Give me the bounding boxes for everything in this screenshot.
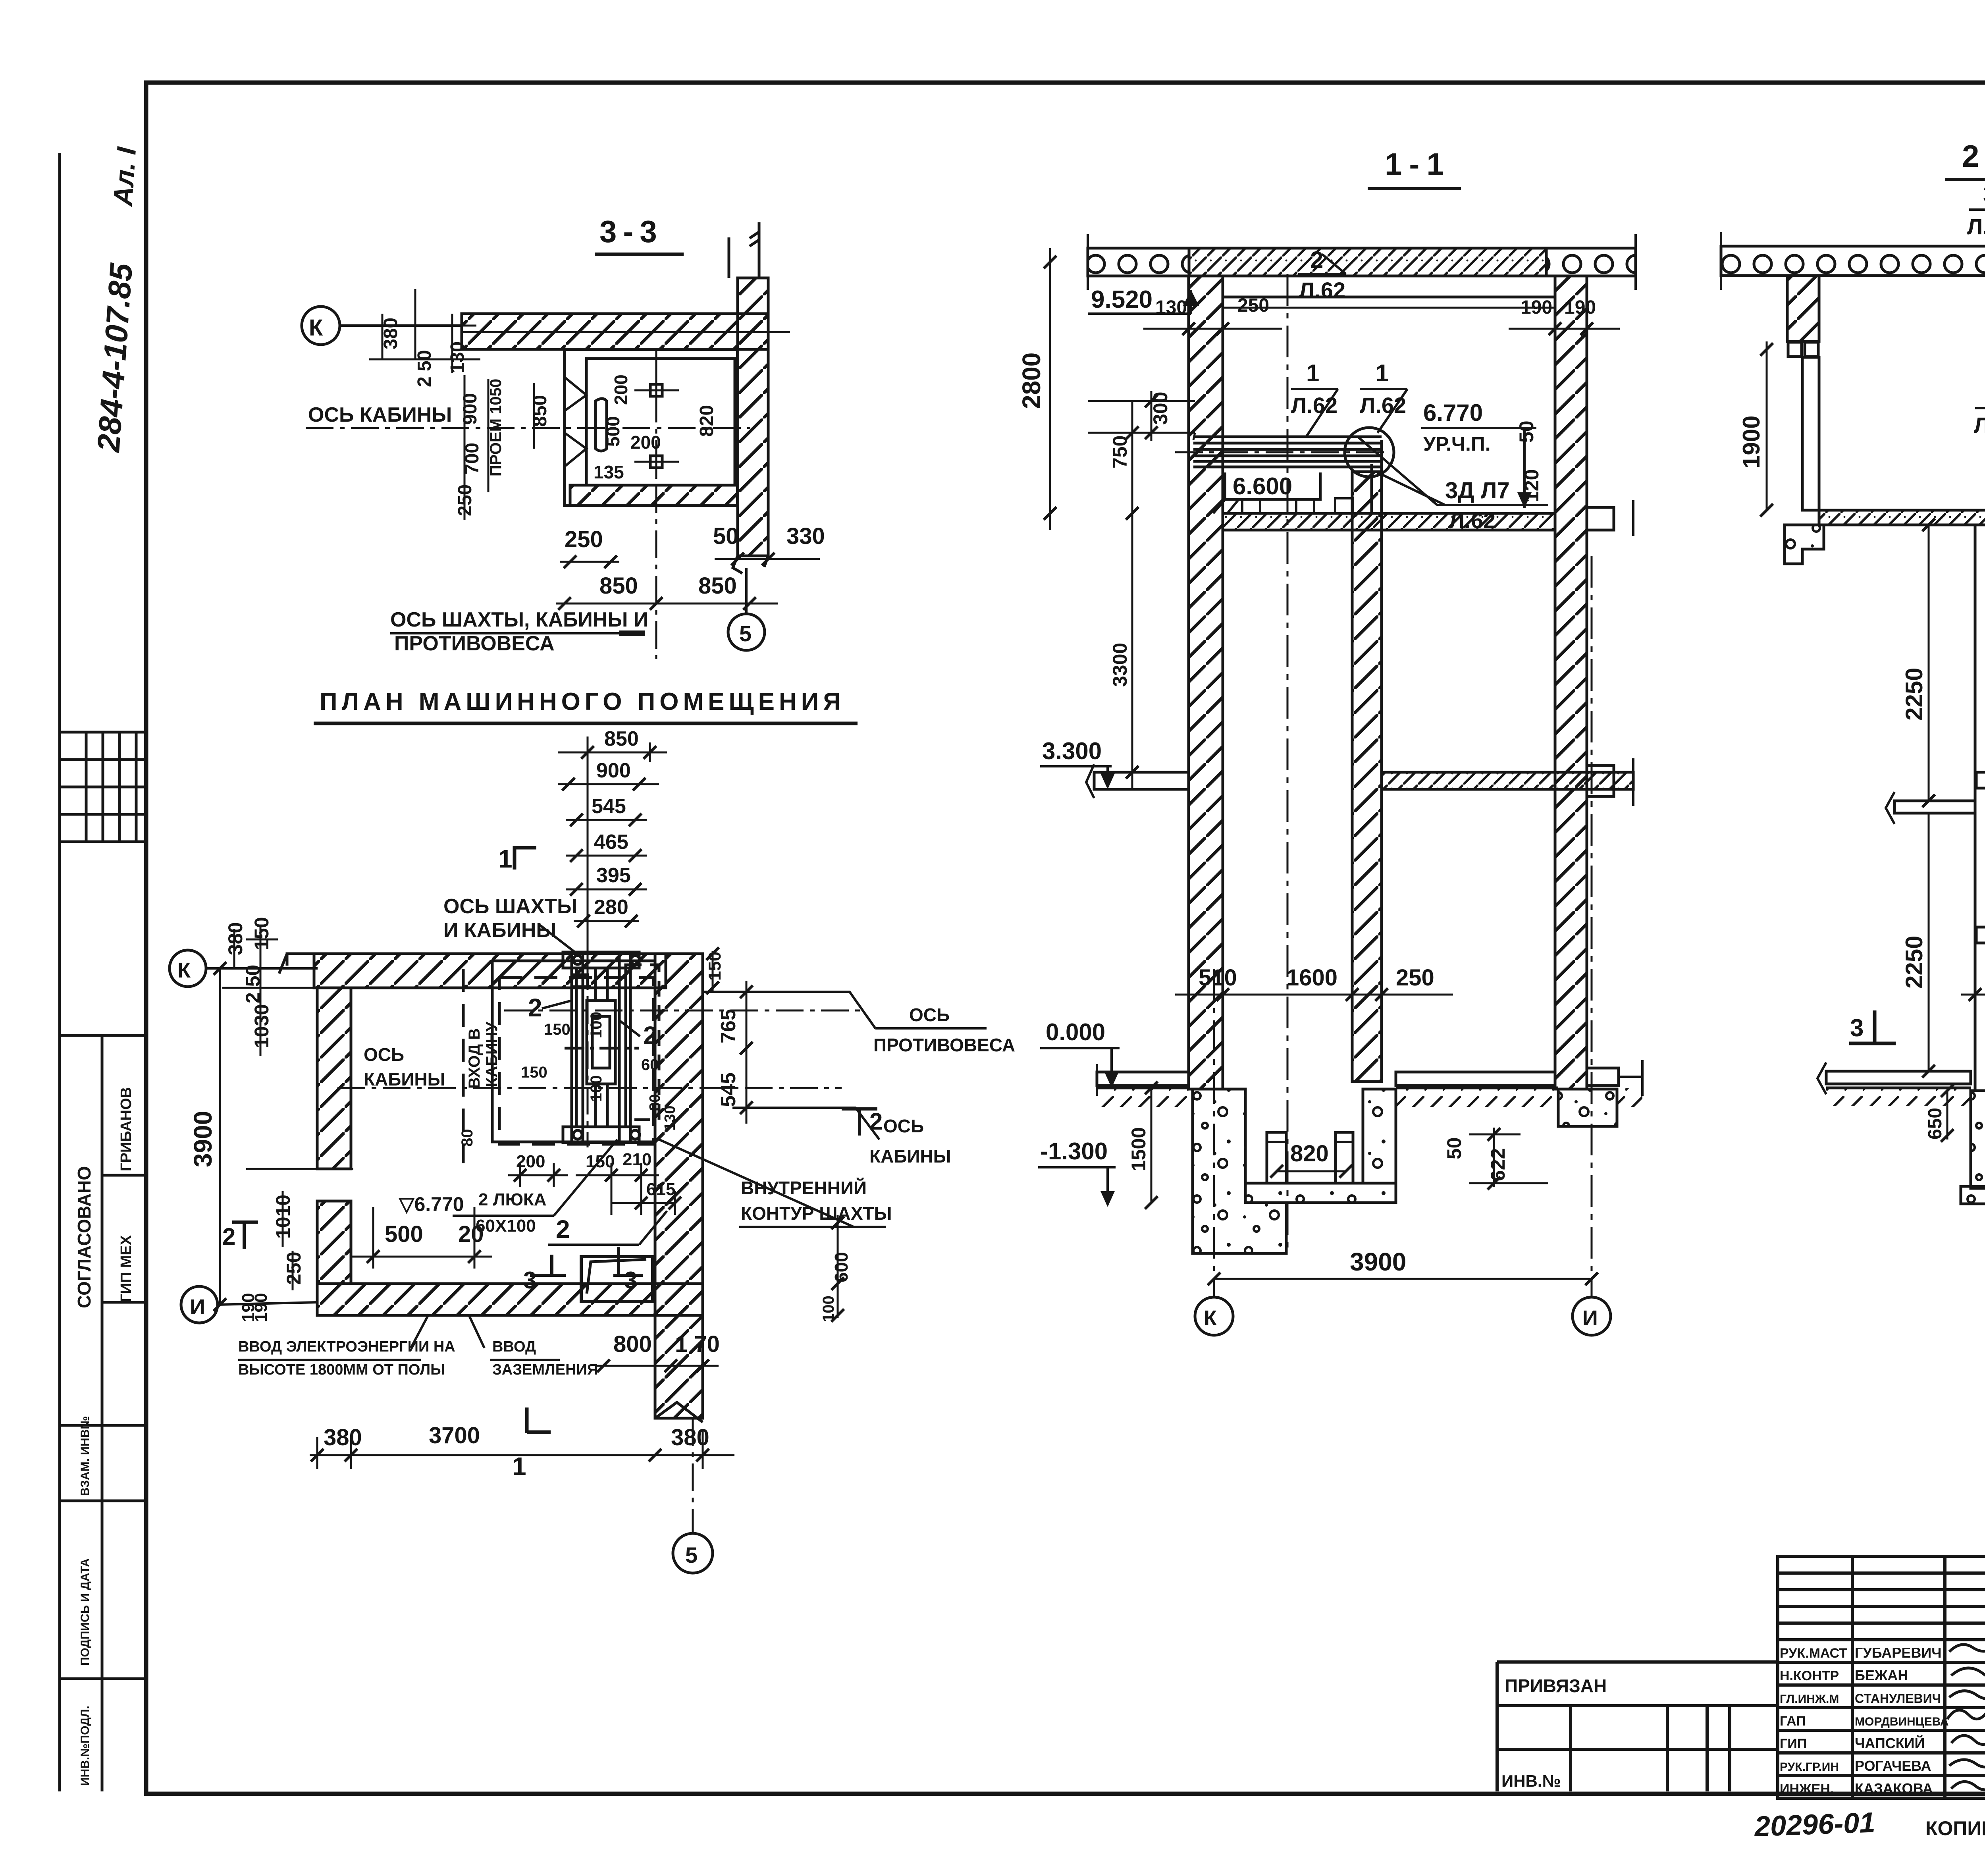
wall right band (738, 278, 768, 556)
left slab 3.300 (1094, 772, 1189, 789)
svg-text:20296-01: 20296-01 (1753, 1807, 1876, 1843)
left wall (1189, 276, 1223, 1089)
grid axis K (302, 307, 340, 345)
left wall upper (317, 988, 351, 1169)
svg-text:КАБИНЫ: КАБИНЫ (364, 1069, 445, 1089)
svg-text:1500: 1500 (1127, 1127, 1150, 1171)
svg-text:СТАНУЛЕВИЧ: СТАНУЛЕВИЧ (1855, 1691, 1941, 1706)
axis circle 5 (728, 614, 765, 650)
soil hatches (1097, 1088, 1189, 1107)
section 3 marks (530, 1255, 566, 1276)
svg-text:900: 900 (460, 393, 481, 425)
svg-text:Л.62: Л.62 (1449, 508, 1495, 533)
axis circle 5 below plan (692, 1418, 694, 1533)
dims 2250 x2 (1928, 525, 1930, 801)
sidebar outer line (58, 153, 61, 1791)
svg-text:150: 150 (521, 1064, 547, 1081)
svg-text:3Д Л7: 3Д Л7 (1445, 478, 1510, 503)
svg-text:И: И (1582, 1306, 1598, 1330)
svg-text:380: 380 (380, 318, 401, 349)
svg-text:615: 615 (646, 1180, 675, 1199)
right side vertical dims 600 400 (837, 1215, 839, 1318)
svg-text:ЧАПСКИЙ: ЧАПСКИЙ (1855, 1735, 1925, 1751)
shaft opening rect (565, 349, 738, 505)
svg-text:190: 190 (1564, 297, 1596, 318)
svg-text:МОРДВИНЦЕВА: МОРДВИНЦЕВА (1855, 1715, 1948, 1728)
svg-text:900: 900 (596, 759, 631, 782)
svg-text:850: 850 (698, 573, 737, 599)
svg-text:3900: 3900 (1350, 1247, 1406, 1276)
svg-text:622: 622 (1487, 1148, 1509, 1181)
left foundation (1193, 1089, 1286, 1253)
wall axis line (462, 331, 790, 333)
svg-text:1 70: 1 70 (675, 1331, 720, 1357)
level 6.600 (1225, 472, 1320, 499)
svg-text:ГРИБАНОВ: ГРИБАНОВ (118, 1087, 135, 1171)
svg-text:И: И (190, 1295, 205, 1319)
svg-text:КАЗАКОВА: КАЗАКОВА (1855, 1780, 1933, 1797)
shaft axis vertical dash (655, 349, 657, 659)
svg-text:КОНТУР ШАХТЫ: КОНТУР ШАХТЫ (741, 1203, 892, 1224)
svg-text:800: 800 (613, 1331, 652, 1357)
svg-text:6.600: 6.600 (1233, 473, 1292, 499)
svg-text:1-1: 1-1 (1385, 147, 1451, 181)
svg-text:ВХОД В: ВХОД В (466, 1028, 483, 1089)
svg-text:200: 200 (611, 374, 631, 405)
svg-text:2250: 2250 (1901, 668, 1927, 721)
svg-text:150: 150 (586, 1152, 615, 1171)
svg-text:850: 850 (530, 395, 551, 427)
svg-text:ОСЬ: ОСЬ (364, 1044, 404, 1065)
top wall left extension (279, 954, 314, 974)
svg-text:545: 545 (592, 795, 626, 818)
svg-text:250: 250 (1396, 965, 1434, 991)
shaft center line (1287, 274, 1289, 1255)
left dim chains (1049, 248, 1051, 530)
right pit wall (1363, 1089, 1396, 1183)
svg-text:-1.300: -1.300 (1040, 1138, 1108, 1165)
svg-text:150: 150 (544, 1021, 570, 1038)
left grid: I circle (181, 1286, 218, 1323)
svg-text:600: 600 (831, 1252, 852, 1282)
svg-text:3-3: 3-3 (599, 214, 663, 249)
sidebar top grid (60, 732, 146, 842)
svg-text:Ал. I: Ал. I (108, 145, 142, 208)
svg-text:ОСЬ: ОСЬ (883, 1116, 924, 1136)
section mark 2 left (232, 1221, 258, 1249)
svg-text:130: 130 (1155, 297, 1187, 318)
svg-text:ВНУТРЕННИЙ: ВНУТРЕННИЙ (741, 1178, 867, 1198)
svg-text:150: 150 (251, 917, 273, 950)
svg-text:ПРОТИВОВЕСА: ПРОТИВОВЕСА (873, 1035, 1015, 1055)
dim 850 850 (556, 603, 778, 605)
svg-text:5: 5 (739, 621, 752, 646)
svg-text:60Х100: 60Х100 (476, 1216, 536, 1236)
left thin wall down to floor (1802, 357, 1819, 510)
svg-text:ОСЬ: ОСЬ (909, 1005, 950, 1025)
middle wall (1352, 472, 1382, 1082)
svg-text:250: 250 (455, 484, 476, 516)
axis circles K I (1213, 969, 1215, 1297)
svg-text:765: 765 (717, 1009, 740, 1043)
svg-text:1600: 1600 (1286, 965, 1337, 991)
svg-text:330: 330 (786, 523, 825, 549)
top slab hollow core right (1546, 248, 1636, 276)
beam stub right of wall at machine floor (1587, 507, 1614, 530)
svg-text:Л.62: Л.62 (1360, 393, 1406, 418)
svg-text:250: 250 (565, 526, 603, 552)
svg-text:СОГЛАСОВАНО: СОГЛАСОВАНО (74, 1166, 94, 1308)
svg-text:1: 1 (512, 1452, 526, 1481)
hatch opening (lyuk) (581, 1257, 653, 1301)
3900 dim bottom (1214, 1278, 1592, 1280)
floor left step block (1785, 525, 1824, 564)
svg-text:ОСЬ ШАХТЫ, КАБИНЫ И: ОСЬ ШАХТЫ, КАБИНЫ И (390, 608, 648, 631)
svg-text:850: 850 (604, 727, 639, 750)
section mark 2 right (842, 1108, 877, 1136)
svg-text:ПОДПИСЬ И ДАТА: ПОДПИСЬ И ДАТА (79, 1558, 92, 1666)
svg-text:ГИП: ГИП (1780, 1736, 1807, 1751)
svg-text:ИНВ.№: ИНВ.№ (1501, 1772, 1561, 1790)
svg-text:2: 2 (222, 1223, 235, 1250)
svg-text:9.520: 9.520 (1091, 286, 1152, 313)
bottom dim row (310, 1454, 734, 1456)
small blocks under left wall (1788, 342, 1802, 357)
svg-text:ВЗАМ. ИНВ№: ВЗАМ. ИНВ№ (79, 1416, 92, 1496)
svg-text:130: 130 (662, 1106, 678, 1131)
svg-text:ВВОД ЭЛЕКТРОЭНЕРГИИ НА: ВВОД ЭЛЕКТРОЭНЕРГИИ НА (238, 1338, 455, 1355)
1900 dim left (1766, 341, 1768, 510)
cab dashed outline (499, 978, 653, 1144)
svg-text:5: 5 (685, 1542, 698, 1568)
right ground slab (1396, 1072, 1555, 1085)
break mark top right (729, 222, 759, 278)
left ground slab (1097, 1072, 1189, 1085)
svg-text:Л.62: Л.62 (1974, 413, 1985, 438)
svg-text:545: 545 (717, 1072, 740, 1107)
svg-text:60: 60 (641, 1056, 659, 1074)
svg-text:ПРИВЯЗАН: ПРИВЯЗАН (1505, 1675, 1607, 1696)
svg-text:750: 750 (1109, 436, 1131, 469)
svg-text:3700: 3700 (429, 1423, 480, 1448)
svg-text:1900: 1900 (1738, 416, 1765, 469)
1500 dim (1151, 1088, 1152, 1203)
svg-text:700: 700 (462, 443, 483, 474)
dims cluster below shaft (508, 1163, 675, 1215)
pit floor (1245, 1183, 1396, 1203)
svg-text:ПРОТИВОВЕСА: ПРОТИВОВЕСА (394, 632, 555, 655)
svg-text:2: 2 (643, 1021, 657, 1050)
top slab hollow core (1721, 246, 1985, 276)
beams left leader (1193, 433, 1195, 440)
svg-text:135: 135 (594, 462, 624, 482)
svg-text:2 50: 2 50 (414, 350, 435, 387)
svg-text:Л.63: Л.63 (1967, 214, 1985, 239)
svg-text:2: 2 (528, 993, 542, 1022)
sidebar vertical texts (74, 1087, 135, 1786)
horizontal ref lines left (1088, 400, 1195, 402)
svg-text:80: 80 (459, 1129, 476, 1147)
anchor plates (650, 384, 662, 396)
svg-text:▽6.770: ▽6.770 (398, 1193, 464, 1215)
svg-text:3.300: 3.300 (1042, 738, 1102, 764)
svg-text:ИНЖЕН.: ИНЖЕН. (1780, 1782, 1834, 1797)
svg-text:1: 1 (498, 844, 513, 873)
right foundation (1558, 1089, 1617, 1126)
shaft bottom hatched band (570, 485, 738, 505)
svg-text:КОПИРОВАЛ: КОПИРОВАЛ (1925, 1817, 1985, 1839)
svg-text:РОГАЧЕВА: РОГАЧЕВА (1855, 1758, 1931, 1774)
vertical dim 3900 (219, 968, 221, 1305)
svg-text:К: К (1204, 1306, 1217, 1330)
svg-text:Л.62: Л.62 (1299, 278, 1345, 303)
svg-text:УР.Ч.П.: УР.Ч.П. (1423, 433, 1491, 455)
bottom leaders (411, 1314, 429, 1348)
dims 765 545 (746, 981, 748, 1124)
svg-text:20: 20 (458, 1221, 484, 1247)
door opening detail left (565, 377, 586, 467)
svg-text:3: 3 (624, 1267, 637, 1294)
cab axis dash line (306, 427, 750, 429)
svg-text:280: 280 (594, 896, 628, 919)
svg-text:190: 190 (251, 1293, 271, 1322)
svg-text:850: 850 (599, 573, 638, 599)
svg-text:465: 465 (594, 831, 628, 854)
ground floor slabs (1826, 1071, 1971, 1084)
svg-text:ВЫСОТЕ 1800ММ ОТ ПОЛЫ: ВЫСОТЕ 1800ММ ОТ ПОЛЫ (238, 1361, 445, 1378)
sidebar label cells (60, 1035, 146, 1791)
svg-text:Л.62: Л.62 (1291, 393, 1337, 418)
svg-text:380: 380 (324, 1425, 362, 1450)
signatures squiggles (1947, 1643, 1985, 1790)
svg-text:150: 150 (705, 952, 725, 981)
dim cascade above plan (558, 737, 667, 961)
svg-text:210: 210 (622, 1150, 651, 1169)
svg-text:100: 100 (820, 1296, 837, 1322)
section mark 1 top (515, 846, 536, 870)
section mark 1 bottom (527, 1407, 551, 1433)
svg-text:3: 3 (1850, 1014, 1864, 1042)
top slab hollow core left (1088, 248, 1189, 276)
svg-text:0.000: 0.000 (1046, 1019, 1105, 1045)
machine floor slab (1223, 513, 1555, 530)
svg-text:2-2: 2-2 (1962, 139, 1985, 174)
svg-text:50: 50 (713, 523, 739, 549)
left machine room wall (1787, 276, 1819, 341)
svg-text:ГИП МЕХ: ГИП МЕХ (118, 1235, 135, 1302)
svg-text:250: 250 (283, 1252, 305, 1285)
svg-text:ГУБАРЕВИЧ: ГУБАРЕВИЧ (1855, 1645, 1942, 1661)
svg-text:3900: 3900 (189, 1111, 217, 1167)
svg-text:190: 190 (1521, 297, 1552, 318)
svg-text:395: 395 (596, 864, 631, 887)
svg-text:ГАП: ГАП (1780, 1714, 1806, 1729)
svg-text:К: К (177, 958, 191, 982)
svg-text:200: 200 (516, 1152, 545, 1171)
svg-text:ПРОЕМ 1050: ПРОЕМ 1050 (487, 379, 505, 476)
svg-text:3: 3 (523, 1267, 536, 1294)
svg-text:ЗАЗЕМЛЕНИЯ: ЗАЗЕМЛЕНИЯ (492, 1361, 598, 1378)
intermediate floor slabs (1894, 801, 1975, 813)
soil hatch (1826, 1088, 1971, 1106)
svg-text:2: 2 (1310, 247, 1323, 273)
svg-text:Н.КОНТР: Н.КОНТР (1780, 1668, 1839, 1683)
svg-text:2: 2 (556, 1215, 570, 1244)
signature table (1778, 1556, 1985, 1798)
machine units on floor (1242, 498, 1260, 513)
650 dim (1946, 1091, 1948, 1139)
left grid: K circle (170, 950, 206, 987)
right slab 3.300 (1382, 772, 1633, 789)
right wall bottom break (655, 1402, 703, 1422)
buffers (1267, 1132, 1286, 1183)
right wall (1555, 276, 1587, 1089)
svg-text:1: 1 (1376, 360, 1389, 386)
svg-text:100: 100 (588, 1012, 605, 1038)
svg-text:300: 300 (1149, 392, 1172, 425)
svg-text:И КАБИНЫ: И КАБИНЫ (443, 919, 556, 942)
privyazan table (1497, 1660, 1778, 1664)
svg-text:200: 200 (630, 432, 661, 453)
svg-text:130: 130 (447, 341, 468, 373)
svg-text:120: 120 (1521, 469, 1543, 502)
detail circle on beam (1345, 428, 1394, 477)
svg-text:1: 1 (1306, 360, 1319, 386)
svg-text:БЕЖАН: БЕЖАН (1855, 1667, 1908, 1683)
svg-text:ОСЬ КАБИНЫ: ОСЬ КАБИНЫ (308, 403, 452, 426)
svg-text:380: 380 (224, 922, 247, 955)
svg-text:50: 50 (1443, 1137, 1465, 1159)
shaft left thin wall (1975, 525, 1985, 1091)
machine floor slab (1819, 510, 1985, 525)
left wall lower (317, 1201, 351, 1284)
svg-text:ПЛАН МАШИННОГО ПОМЕЩЕНИЯ: ПЛАН МАШИННОГО ПОМЕЩЕНИЯ (320, 688, 845, 715)
wall top band (462, 314, 768, 349)
svg-text:2 ЛЮКА: 2 ЛЮКА (478, 1190, 547, 1209)
svg-text:ОСЬ ШАХТЫ: ОСЬ ШАХТЫ (443, 895, 577, 918)
right wall full (655, 954, 703, 1418)
svg-text:К: К (309, 315, 323, 341)
pit (1971, 1091, 1985, 1188)
svg-text:80: 80 (647, 1094, 663, 1111)
rails / machine assembly (563, 951, 659, 1143)
svg-text:820: 820 (696, 405, 717, 437)
svg-text:6.770: 6.770 (1423, 399, 1483, 426)
svg-text:КАБИНЫ: КАБИНЫ (869, 1146, 951, 1166)
svg-text:500: 500 (385, 1221, 423, 1247)
svg-text:ГЛ.ИНЖ.М: ГЛ.ИНЖ.М (1780, 1693, 1839, 1706)
svg-text:РУК.МАСТ: РУК.МАСТ (1780, 1646, 1847, 1661)
svg-text:ВВОД: ВВОД (492, 1338, 536, 1355)
svg-text:КАБИНУ: КАБИНУ (483, 1021, 501, 1087)
svg-text:3300: 3300 (1109, 643, 1131, 687)
svg-text:50: 50 (1515, 420, 1538, 443)
svg-text:250: 250 (1237, 295, 1269, 316)
ceiling line under slab (1223, 296, 1555, 299)
svg-text:820: 820 (1290, 1141, 1329, 1166)
shaft opening structure (492, 961, 655, 1142)
machine beams (1193, 437, 1382, 513)
svg-text:2800: 2800 (1017, 353, 1046, 409)
svg-text:РУК.ГР.ИН: РУК.ГР.ИН (1780, 1760, 1839, 1774)
svg-text:500: 500 (603, 416, 623, 447)
section 3 marks (1849, 1010, 1896, 1043)
bottom wall (317, 1284, 703, 1315)
svg-text:3: 3 (1983, 181, 1985, 208)
top slab middle (1189, 248, 1546, 276)
svg-text:2: 2 (869, 1108, 883, 1135)
left dim chain verticals (369, 289, 534, 520)
slab end breaks (1087, 234, 1089, 290)
axis lines in plan (337, 1087, 842, 1089)
svg-text:1030: 1030 (251, 1004, 273, 1048)
svg-text:2250: 2250 (1901, 936, 1927, 989)
svg-text:ИНВ.№ПОДЛ.: ИНВ.№ПОДЛ. (79, 1706, 92, 1786)
svg-text:510: 510 (1199, 965, 1237, 991)
top wall (314, 954, 666, 988)
svg-text:650: 650 (1925, 1108, 1946, 1139)
